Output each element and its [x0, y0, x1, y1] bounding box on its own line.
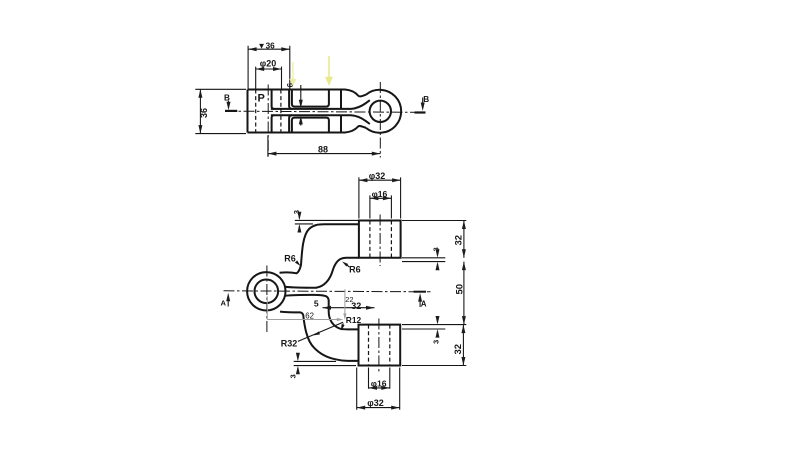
dimension 36 (depth symbol) top: [248, 42, 290, 89]
dimension 6 web thickness: [286, 82, 303, 125]
section A-A bar right: [414, 291, 427, 293]
eye hole inner circle: [370, 101, 391, 122]
upper boss hole hidden lines: [370, 221, 392, 258]
dimension phi32 top: [359, 171, 401, 218]
dimension 3 left lower: [288, 353, 356, 379]
svg-text:φ16: φ16: [371, 379, 387, 389]
upper arm outer profile: [280, 224, 359, 273]
svg-text:3: 3: [432, 247, 441, 251]
svg-text:R6: R6: [349, 264, 361, 274]
slot left shoulder lower: [272, 115, 275, 132]
svg-text:A: A: [221, 299, 227, 308]
yellow highlight arrow right: [325, 56, 333, 86]
dimension 3 right lower: [431, 316, 440, 344]
svg-text:3: 3: [292, 210, 301, 214]
svg-text:φ32: φ32: [369, 171, 385, 181]
section mark A right: [418, 293, 427, 308]
svg-text:B: B: [224, 93, 230, 102]
dimension 88: [268, 136, 380, 157]
web boundary vertical: [340, 90, 342, 133]
neck lower line: [285, 294, 313, 297]
svg-text:3: 3: [431, 340, 440, 344]
svg-text:5: 5: [314, 299, 319, 309]
left cylinder body outline: [247, 90, 249, 133]
hidden hole line right: [280, 90, 282, 133]
dimension phi16 bottom: [369, 368, 390, 390]
svg-text:3: 3: [288, 374, 297, 378]
neck upper line: [285, 287, 316, 288]
svg-text:32: 32: [454, 235, 465, 246]
lower boss rectangle: [359, 325, 401, 366]
dimension phi16 top: [370, 189, 392, 219]
svg-text:R6: R6: [284, 254, 296, 264]
lower arm inner profile R12: [313, 295, 359, 330]
svg-text:A: A: [421, 299, 427, 308]
eye hole circle: [254, 280, 278, 304]
eye vertical centerline: [379, 82, 381, 158]
svg-text:36: 36: [199, 108, 209, 118]
svg-text:88: 88: [318, 145, 328, 155]
svg-text:▼36: ▼36: [258, 42, 276, 51]
upper boss rectangle: [359, 221, 401, 258]
lower arm outer profile R32: [280, 312, 359, 361]
dimension phi20: [256, 59, 282, 89]
horizontal centerline top view: [225, 111, 426, 112]
horizontal centerline bottom view: [224, 291, 431, 292]
centerline end bar left: [225, 110, 237, 112]
right side extension lines: [402, 221, 466, 366]
svg-text:50: 50: [454, 284, 465, 295]
grey measure 62 line: [267, 319, 341, 321]
web slot lower line: [271, 115, 370, 124]
eye outer circle: [247, 272, 285, 310]
lower boss hole hidden lines: [369, 325, 390, 366]
hidden hole line left: [255, 90, 257, 133]
upper arm inner profile: [316, 258, 359, 288]
svg-text:φ16: φ16: [372, 189, 388, 199]
centerline end bar right: [415, 111, 426, 113]
svg-text:R32: R32: [281, 339, 298, 349]
dimension 3 right upper: [432, 247, 441, 270]
dimension 32 middle with 5 label: [314, 299, 375, 312]
dimension 32 right lower: [453, 325, 465, 366]
svg-text:22: 22: [345, 295, 353, 304]
bottom edge with waist into eye: [248, 126, 367, 133]
radius label R6 left: [284, 254, 301, 268]
section mark B right: [421, 95, 430, 111]
top view: rocker arm side elevation: [195, 42, 429, 158]
dimension phi32 bottom: [357, 368, 400, 410]
grey measure overlay vertical left: [266, 296, 268, 319]
dimension 36 left vertical: [195, 89, 246, 133]
svg-text:φ32: φ32: [367, 398, 383, 408]
svg-text:P: P: [258, 93, 265, 105]
flange panel upper: [292, 90, 329, 107]
slot left shoulder upper: [272, 90, 275, 109]
eye boss outer circle: [366, 90, 401, 133]
dimension 50 right: [454, 262, 466, 325]
flange panel lower: [292, 118, 329, 133]
section mark B left: [224, 93, 231, 110]
upper boss centerline: [379, 215, 381, 267]
eye vertical centerline: [266, 266, 268, 333]
dimension 32 right upper: [454, 221, 466, 258]
top edge with waist into eye: [248, 90, 367, 97]
grey measure 22 line: [344, 289, 346, 317]
cylinder right face upper segment: [289, 90, 292, 109]
left hole vertical centerline: [267, 85, 269, 157]
web slot upper line: [271, 100, 370, 109]
lower boss centerline: [378, 319, 380, 372]
radius label R12: [339, 315, 361, 331]
svg-text:R12: R12: [346, 315, 362, 325]
cylinder right face lower segment: [289, 115, 292, 132]
radius label R32: [281, 322, 343, 348]
dimension 3 left upper: [292, 210, 359, 233]
yellow highlight arrow left: [289, 62, 296, 86]
radius label R6 right: [341, 260, 360, 274]
svg-text:32: 32: [453, 344, 464, 355]
bottom view: fork front elevation section A-A: [221, 171, 467, 410]
svg-text:62: 62: [305, 312, 314, 321]
section mark A left: [221, 293, 231, 308]
svg-text:φ20: φ20: [260, 59, 276, 69]
